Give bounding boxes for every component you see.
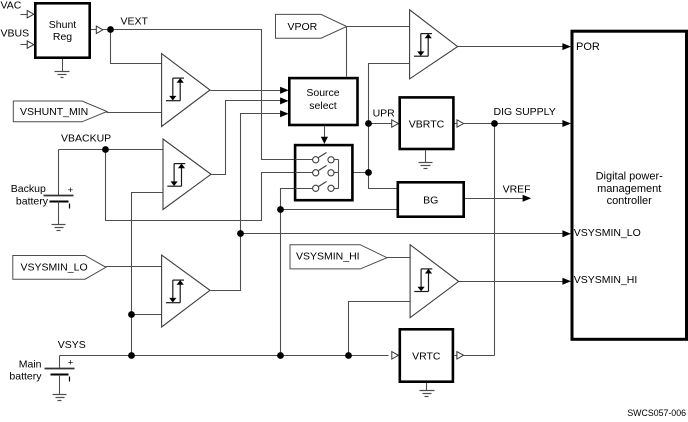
- svg-text:management: management: [597, 183, 661, 195]
- svg-text:+: +: [68, 185, 74, 196]
- svg-text:Shunt: Shunt: [49, 19, 77, 31]
- svg-text:Reg: Reg: [53, 31, 72, 43]
- svg-text:VPOR: VPOR: [288, 21, 318, 33]
- svg-text:battery: battery: [16, 195, 49, 207]
- svg-text:Source: Source: [306, 87, 339, 99]
- svg-text:VBRTC: VBRTC: [409, 118, 445, 130]
- svg-text:VSYS: VSYS: [58, 339, 86, 351]
- svg-text:BG: BG: [423, 195, 438, 207]
- svg-text:VSHUNT_MIN: VSHUNT_MIN: [20, 106, 88, 118]
- svg-text:Main: Main: [19, 358, 42, 370]
- svg-text:VBACKUP: VBACKUP: [61, 132, 111, 144]
- svg-text:VBUS: VBUS: [1, 28, 30, 40]
- svg-text:VSYSMIN_LO: VSYSMIN_LO: [21, 262, 88, 274]
- svg-text:VEXT: VEXT: [121, 16, 149, 28]
- svg-text:VSYSMIN_HI: VSYSMIN_HI: [296, 251, 360, 263]
- svg-text:Digital power-: Digital power-: [596, 171, 664, 183]
- svg-text:POR: POR: [576, 41, 600, 53]
- svg-text:+: +: [68, 358, 74, 369]
- svg-text:UPR: UPR: [373, 108, 396, 120]
- svg-text:Backup: Backup: [11, 183, 46, 195]
- svg-text:select: select: [309, 100, 337, 112]
- svg-text:SWCS057-006: SWCS057-006: [627, 408, 686, 417]
- svg-text:VSYSMIN_HI: VSYSMIN_HI: [574, 274, 638, 286]
- svg-text:controller: controller: [607, 195, 653, 207]
- svg-text:battery: battery: [9, 370, 42, 382]
- svg-text:VAC: VAC: [1, 0, 22, 11]
- svg-text:DIG SUPPLY: DIG SUPPLY: [494, 106, 556, 118]
- svg-text:VSYSMIN_LO: VSYSMIN_LO: [574, 227, 641, 239]
- svg-text:VRTC: VRTC: [412, 351, 441, 363]
- svg-text:VREF: VREF: [503, 183, 531, 195]
